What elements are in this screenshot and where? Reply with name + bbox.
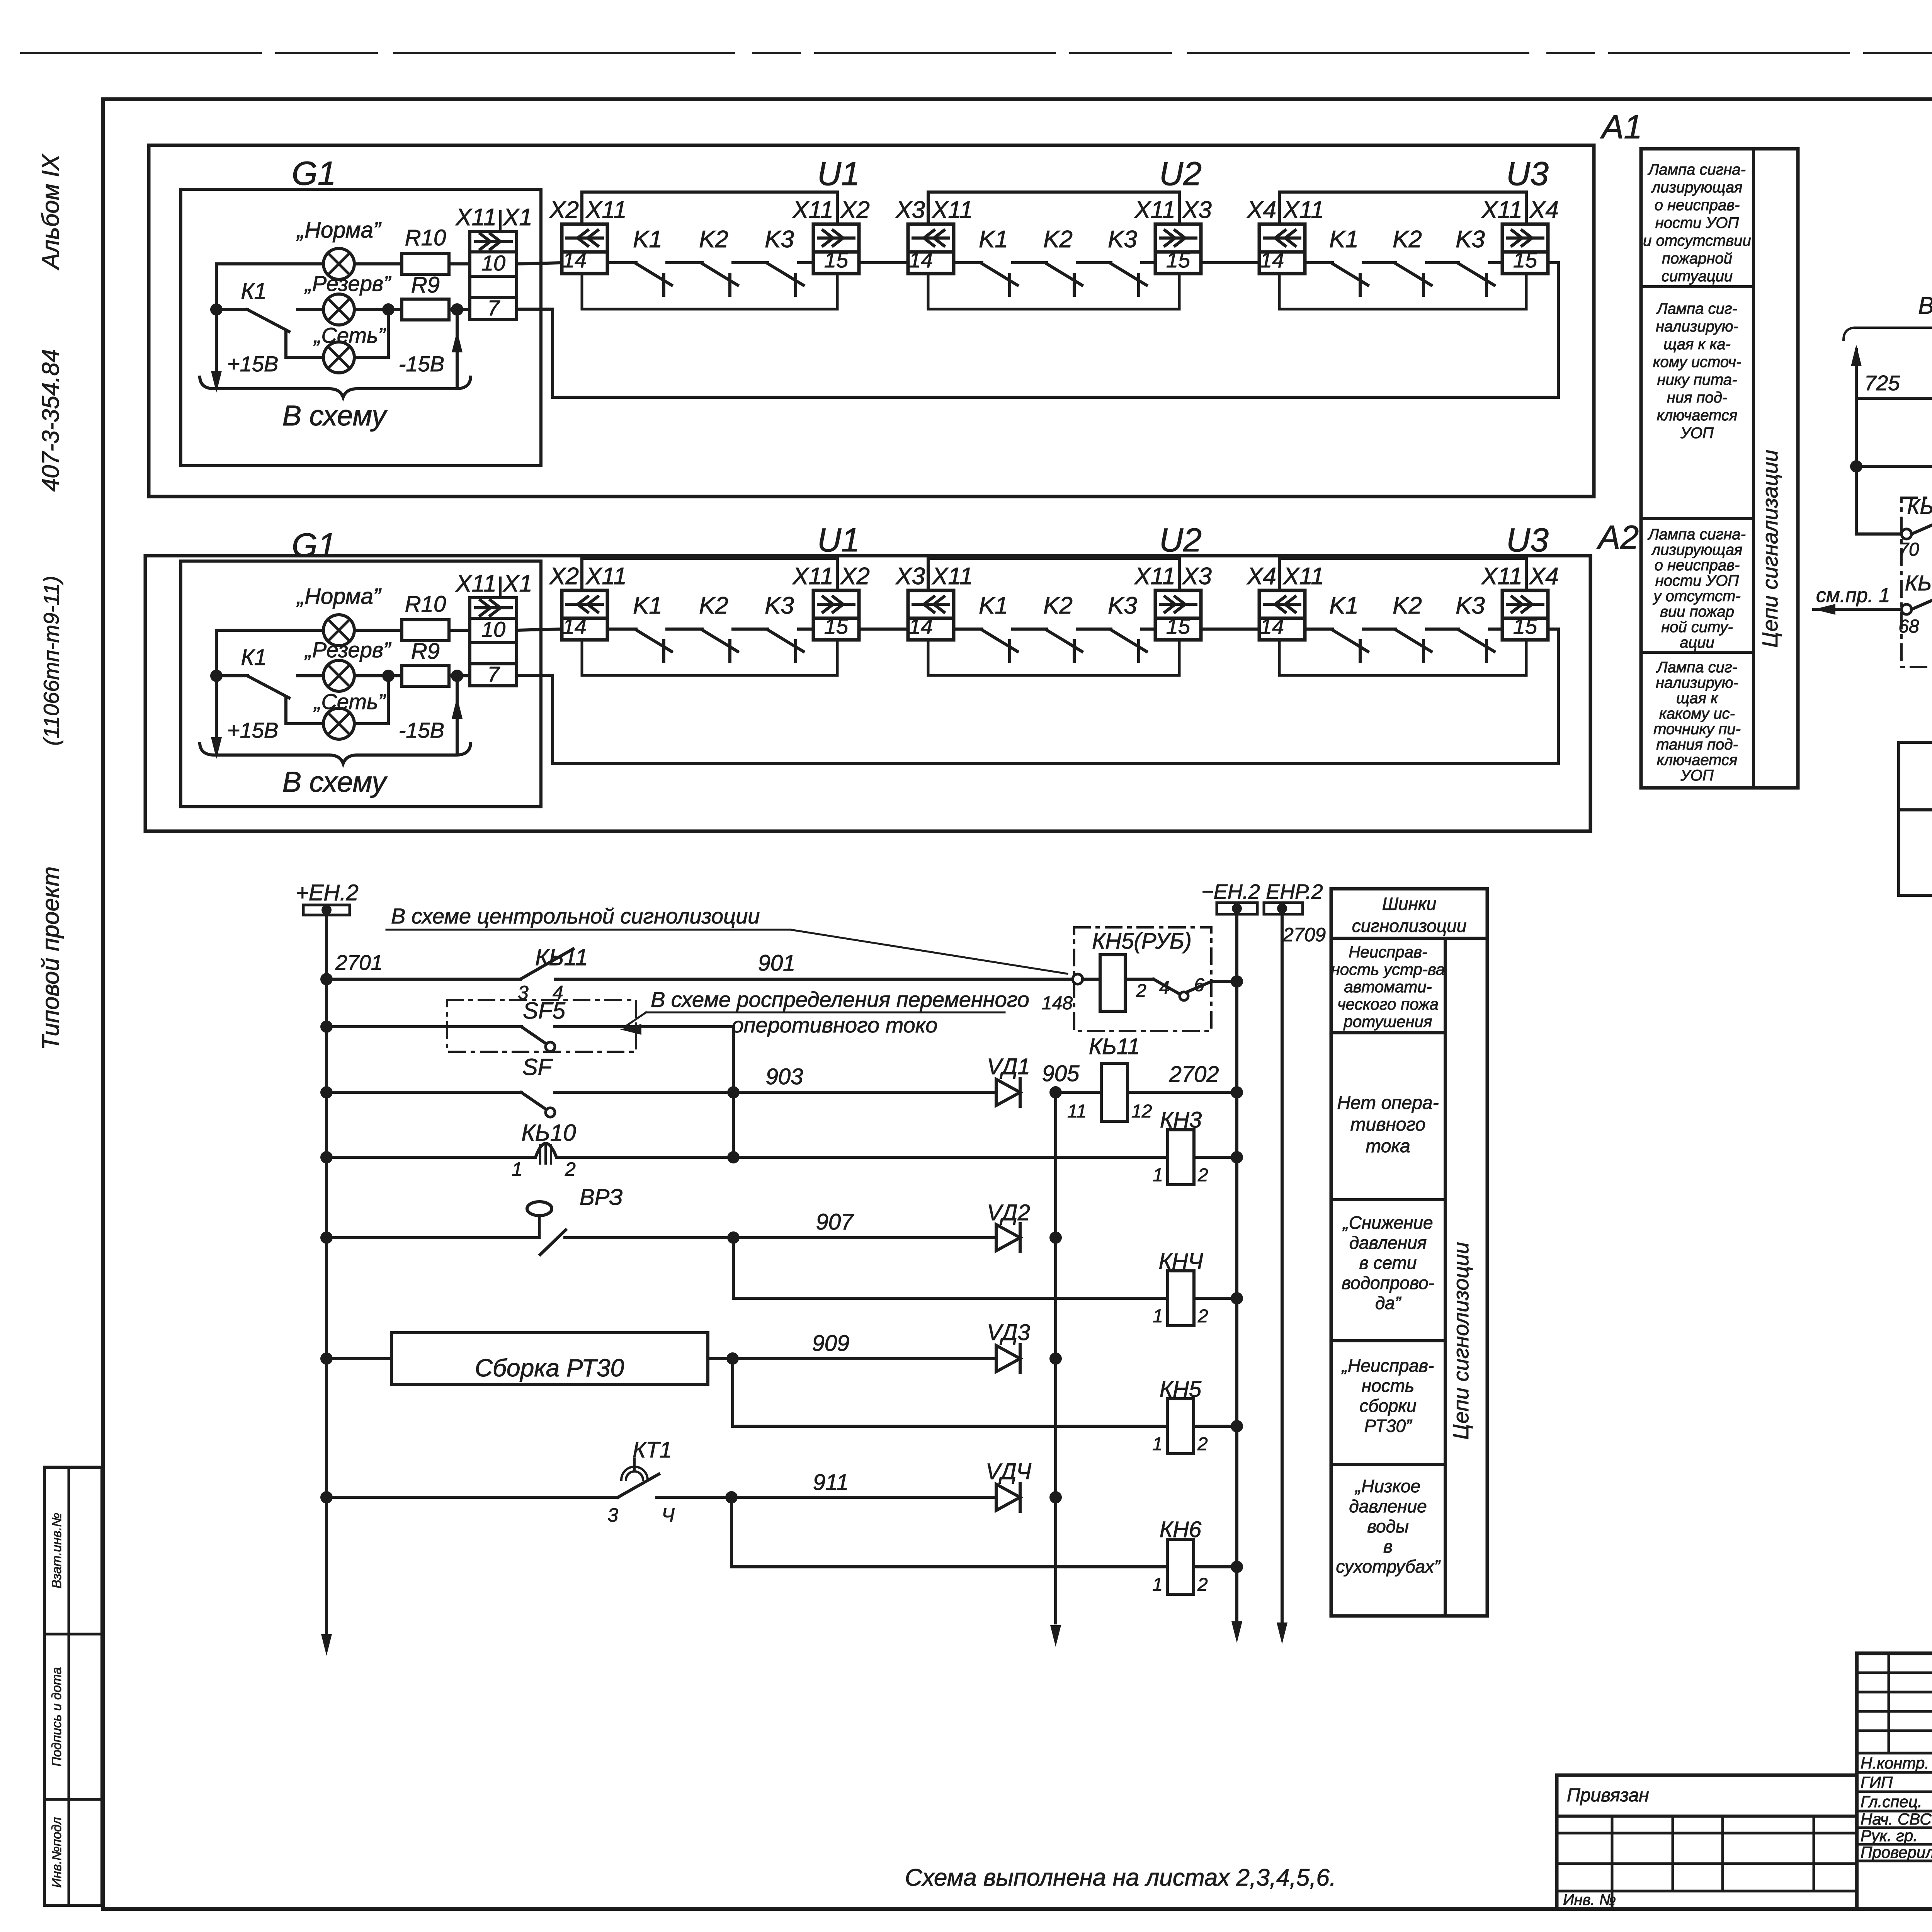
svg-text:K3: K3 [765,226,794,253]
arrow EHP.2 end [1277,1622,1287,1644]
interface unit U2 frame [928,558,1179,675]
svg-text:X4: X4 [1529,197,1559,223]
wire -15B stub [452,310,463,387]
label KH4 [1158,1249,1203,1274]
contact K1 in U2 [979,592,1046,662]
lamp HL Norma [323,248,354,279]
label 2709 [1282,924,1326,946]
svg-text:2: 2 [1136,981,1146,1001]
svg-text:„Норма”: „Норма” [296,584,382,609]
svg-text:K1: K1 [979,226,1008,253]
contact KL8 5-6 [1856,503,1932,560]
svg-text:1: 1 [1152,1575,1163,1595]
lamp HL Set [323,342,354,373]
label Norma [296,218,382,243]
svg-text:2: 2 [1197,1434,1208,1454]
svg-text:X11: X11 [1282,563,1324,590]
svg-text:ния под-: ния под- [1667,389,1727,406]
svg-text:Типовой проект: Типовой проект [37,866,64,1050]
block G1 frame [181,561,541,807]
label U1 [817,522,860,559]
node KH4 at bus [1231,1292,1243,1304]
svg-text:ческого пожа: ческого пожа [1337,995,1439,1013]
label SF [522,1054,553,1080]
svg-text:ной ситу-: ной ситу- [1661,619,1733,636]
svg-text:15: 15 [1166,248,1190,272]
svg-text:K3: K3 [1108,592,1137,619]
svg-text:КЬ8 (РСТ8): КЬ8 (РСТ8) [1905,571,1932,595]
svg-text:у отсутст-: у отсутст- [1652,588,1740,605]
note list numbers [905,1864,1336,1891]
cell lampa 4 [1653,659,1741,784]
svg-text:Ч: Ч [662,1504,675,1526]
wire feeder-SF [327,1025,521,1028]
connector X4/X11 of U3 [1246,563,1324,640]
svg-text:X11: X11 [1134,563,1175,590]
svg-text:лизирующая: лизирующая [1651,541,1743,558]
wire return U3.15 to G1.7 [517,263,1558,397]
svg-text:U3: U3 [1506,522,1549,559]
svg-text:Лампа сиг-: Лампа сиг- [1656,659,1737,676]
svg-text:X11: X11 [585,197,627,223]
svg-text:-15В: -15В [399,352,444,376]
contact K2 in U3 [1393,592,1459,662]
svg-text:R10: R10 [405,225,446,250]
wire R9 row [354,670,470,682]
lamp function table frame [1641,149,1798,788]
node 903 junction [727,1086,740,1099]
label wire 907 [816,1209,855,1235]
label Privyazan [1567,1785,1649,1806]
svg-text:K3: K3 [1108,226,1137,253]
wire Set lamp return [354,303,395,357]
label Podpis i data [49,1667,64,1766]
svg-text:К1: К1 [241,279,267,304]
contact K3 in U3 [1456,226,1502,295]
connector X11/X1 stack [455,204,532,320]
svg-text:„Неисправ-: „Неисправ- [1341,1355,1434,1376]
wire U1.15 to U2 [859,628,908,631]
svg-text:15: 15 [1166,614,1190,638]
contact K2 in U2 [1043,226,1111,295]
svg-text:G1: G1 [292,155,336,192]
signal bus table frame [1331,889,1487,1616]
label VD1 [987,1054,1030,1079]
svg-text:Лампа сиг-: Лампа сиг- [1656,300,1737,317]
label -15B [399,718,444,742]
contact KH7 [1856,371,1932,423]
svg-text:В схему: В схему [282,400,388,432]
svg-text:X1: X1 [502,204,532,231]
label KH3 [1160,1107,1202,1133]
svg-text:и отсутствии: и отсутствии [1643,232,1751,249]
svg-text:X4: X4 [1246,563,1276,590]
svg-text:КНЧ: КНЧ [1158,1249,1203,1274]
table header Shinki [1352,894,1467,936]
margin text Tipovoy proekt [37,866,64,1050]
svg-text:вии пожар: вии пожар [1660,603,1734,620]
contact K1 in U3 [1329,226,1396,295]
svg-text:X11: X11 [455,570,497,597]
staff rows [1861,1754,1932,1861]
junction node [210,303,223,316]
svg-text:ности УОП: ности УОП [1655,214,1740,231]
svg-text:Лампа сигна-: Лампа сигна- [1647,526,1746,543]
sheet top trim line [21,52,1932,54]
connector X2/X11 of U1 [549,563,627,640]
svg-text:воды: воды [1367,1516,1409,1536]
connector X11/X2 of U1 [792,197,870,274]
wire G1 left vertical [215,264,218,389]
interface unit U2 frame [928,192,1179,309]
svg-text:Шинки: Шинки [1382,894,1437,914]
svg-text:K2: K2 [1393,592,1422,619]
label Vzam inv [49,1513,64,1588]
svg-text:2: 2 [565,1158,576,1180]
node KH8 left [1850,460,1862,473]
contact K3 in U2 [1108,592,1155,662]
label А1 [1600,109,1642,146]
svg-text:А2: А2 [1596,519,1639,556]
contact K1 changeover [216,310,323,357]
label VD3 [987,1320,1030,1345]
unit А1 frame [149,145,1594,497]
svg-text:Альбом IX: Альбом IX [37,153,64,270]
svg-text:лизирующая: лизирующая [1651,179,1743,196]
svg-text:1: 1 [1152,1434,1163,1454]
svg-text:X11: X11 [1282,197,1324,223]
svg-text:15: 15 [1513,248,1537,272]
svg-text:68: 68 [1898,616,1919,637]
contact K2 in U2 [1043,592,1111,662]
svg-text:ситуации: ситуации [1662,268,1733,285]
svg-text:X2: X2 [549,563,579,590]
svg-text:КТ1: КТ1 [633,1437,672,1463]
svg-text:X11: X11 [931,197,973,223]
svg-text:X11: X11 [1481,563,1522,590]
svg-text:„Низкое: „Низкое [1355,1476,1420,1496]
node 909 junction [726,1352,739,1365]
label Inv No [1563,1891,1616,1908]
svg-text:пожарной: пожарной [1662,250,1732,267]
connector X11/X4 of U3 [1481,197,1559,274]
node KH5 at bus [1231,1420,1243,1432]
label wire 903 [766,1064,803,1089]
node 911 junction [725,1491,738,1503]
svg-text:2702: 2702 [1168,1062,1219,1087]
svg-text:14: 14 [1260,614,1284,638]
wire +EH.2 feeder [325,915,328,1633]
relay coil KH6 [731,1539,1237,1595]
svg-text:КН5: КН5 [1160,1377,1202,1402]
wire G1 left vertical [215,630,218,755]
svg-text:K1: K1 [1329,592,1359,619]
brace header [1844,319,1932,340]
interface unit U1 frame [582,192,837,309]
svg-text:K1: K1 [979,592,1008,619]
label R9 [411,639,440,664]
svg-text:„Резерв”: „Резерв” [304,271,391,296]
svg-text:U1: U1 [817,522,860,559]
contact KL10 [521,1092,996,1117]
label Set [313,689,386,714]
svg-text:Цепи сигнолизоции: Цепи сигнолизоции [1449,1242,1473,1440]
svg-text:В схеме центрольной сигнолиз: В схеме центрольной сигнолизоции [391,904,760,928]
connector X2/X11 of U1 [549,197,627,274]
margin text Albom IX [37,153,64,270]
svg-text:В схеме роспределения переме: В схеме роспределения переменного [651,987,1029,1012]
cell Neispravnost sborki [1341,1355,1434,1436]
node 2702 [1231,1086,1243,1099]
margin text 407-3-354.84 [37,349,64,492]
svg-text:Инв. №: Инв. № [1563,1891,1616,1908]
label KL8(PCT8) upper [1907,494,1932,519]
lamp HL Norma [323,615,354,646]
brace V schemu [200,377,471,397]
svg-text:K2: K2 [1043,226,1073,253]
cell Net operativnogo [1337,1093,1439,1156]
svg-text:−ЕН.2: −ЕН.2 [1201,880,1260,903]
svg-text:Гл.спец.: Гл.спец. [1861,1793,1922,1811]
wire VR3 down [732,1238,735,1298]
svg-text:SF5: SF5 [523,998,566,1024]
label 725 [1864,371,1900,395]
node KH6 at bus [1231,1561,1243,1573]
assembly RT30 box [327,1333,708,1384]
svg-text:K1: K1 [633,592,662,619]
svg-text:903: 903 [766,1064,803,1089]
label Rezerv [304,638,391,662]
svg-text:+ЕН.2: +ЕН.2 [296,880,359,905]
relay coil KH3 [1153,1130,1237,1185]
arrow -EH.2 end [1231,1621,1242,1643]
svg-text:14: 14 [563,614,587,638]
label SF5 [523,998,566,1024]
node KH3 junction [727,1151,740,1163]
svg-text:+15В: +15В [227,352,278,376]
label А2 [1596,519,1639,556]
label KL10 [521,1120,576,1146]
svg-text:ность: ность [1362,1376,1414,1396]
wire return U3.15 to G1.7 [517,629,1558,764]
wire G1.10 to U1 [517,629,562,630]
svg-text:„Снижение: „Снижение [1342,1213,1433,1233]
svg-text:о неисправ-: о неисправ- [1655,557,1740,574]
svg-text:+15В: +15В [227,718,278,742]
svg-text:КЬ11: КЬ11 [535,944,588,970]
label U3 [1506,155,1549,192]
lamp HL Rezerv [323,660,354,691]
svg-text:K2: K2 [699,226,728,253]
svg-text:2: 2 [1197,1165,1208,1185]
svg-text:щая к: щая к [1676,690,1719,707]
svg-text:3: 3 [607,1504,618,1526]
svg-text:U1: U1 [817,155,860,192]
label VR3 [580,1185,623,1210]
svg-text:ключается: ключается [1657,407,1738,424]
interface unit U1 frame [582,558,837,675]
contact K3 in U1 [765,592,813,662]
svg-text:K3: K3 [1456,226,1485,253]
resistor R9 [402,299,449,320]
connector X11/X3 of U2 [1134,197,1212,274]
label wire 911 [813,1470,849,1495]
svg-text:(11066тп-т9-11): (11066тп-т9-11) [39,576,63,746]
contact K2 in U1 [699,592,768,662]
svg-text:Лампа сигна-: Лампа сигна- [1647,161,1746,178]
svg-text:1: 1 [1153,1306,1163,1327]
wire U1.15 to U2 [859,261,908,264]
junction node [210,670,223,682]
label V schemu [282,766,388,798]
wire 2701-KL11 [327,978,520,981]
breaker SF5 boundary [447,1000,636,1052]
svg-text:нализирую-: нализирую- [1656,318,1738,335]
label KT1 [633,1437,672,1463]
svg-text:R9: R9 [411,639,440,664]
wire 707 out [1899,865,1932,901]
svg-text:905: 905 [1042,1061,1080,1086]
svg-text:КЬ11: КЬ11 [1089,1034,1140,1059]
svg-text:А1: А1 [1600,109,1642,146]
wire sm.pr.1 left [1814,584,1901,615]
diode VD2 [996,1224,1020,1252]
cell Nizkoe davlenie [1336,1476,1441,1577]
resistor R10 [402,253,449,274]
svg-text:В схему передачи индивидуал: В схему передачи индивидуальных сигналов [1918,293,1932,319]
svg-text:2709: 2709 [1282,924,1326,946]
svg-text:автомати-: автомати- [1344,978,1432,996]
label wire 901 [758,951,796,976]
node 903 row [320,1086,333,1099]
label tsepi signalizatsii left [1758,450,1782,648]
label K1 [241,279,267,304]
wire R9 row [354,303,470,316]
contact K3 in U3 [1456,592,1502,662]
valve sensor VR3 [327,1202,996,1255]
wire G1.10 to U1 [517,263,562,264]
svg-text:911: 911 [813,1470,849,1495]
svg-text:K3: K3 [765,592,794,619]
label KL11 coil [1089,1034,1140,1059]
label KL11 [535,944,588,970]
connector X3/X11 of U2 [895,197,973,274]
svg-text:12: 12 [1131,1101,1152,1122]
connector X11/X4 of U3 [1481,563,1559,640]
svg-text:909: 909 [812,1331,850,1356]
svg-text:тивного: тивного [1350,1114,1426,1135]
svg-text:ации: ации [1680,634,1714,651]
svg-text:U3: U3 [1506,155,1549,192]
diode VD3 [996,1345,1020,1372]
svg-text:сборки: сборки [1359,1396,1416,1416]
label G1 [292,155,336,192]
side stamp table [44,1467,102,1905]
attachment table [1557,1775,1857,1909]
svg-text:148: 148 [1042,993,1073,1014]
node VD2 out [1049,1231,1062,1244]
svg-text:X11: X11 [792,197,833,223]
svg-text:КЬ10: КЬ10 [521,1120,576,1146]
svg-text:Сборка РТ30: Сборка РТ30 [475,1354,624,1382]
contact K3 in U1 [765,226,813,295]
svg-text:VД3: VД3 [987,1320,1030,1345]
svg-text:14: 14 [563,248,587,272]
svg-text:14: 14 [909,248,933,272]
svg-text:G1: G1 [292,527,336,564]
svg-text:U2: U2 [1159,155,1202,192]
svg-text:Схема выполнена на листах: Схема выполнена на листах 2,3,4,5,6. [905,1864,1336,1891]
label U2 [1159,522,1202,559]
wire Set lamp return [354,670,395,724]
contact K1 changeover [216,676,323,724]
label Set [313,323,386,347]
label wire 909 [812,1331,850,1356]
resistor R10 [402,620,449,641]
svg-text:сухотрубах”: сухотрубах” [1336,1556,1441,1577]
label U2 [1159,155,1202,192]
svg-text:X4: X4 [1246,197,1276,223]
label U3 [1506,522,1549,559]
svg-text:K2: K2 [1393,226,1422,253]
svg-text:да”: да” [1375,1293,1402,1313]
svg-text:КН3: КН3 [1160,1107,1202,1133]
label G1 [292,527,336,564]
label U1 [817,155,860,192]
label K1 [241,645,267,670]
wire -15B stub [452,676,463,753]
svg-text:Н.контр.: Н.контр. [1861,1754,1929,1772]
contact K1 in U2 [979,226,1046,295]
contact KH8 lower [1899,742,1932,834]
contact K1 in U1 [633,592,702,662]
wire lamp Norma row [216,629,470,632]
wire lower left riser [1897,742,1900,895]
label KH5(RUB) [1092,929,1192,954]
contact 1-2 pressure [327,1143,1168,1180]
svg-text:VД1: VД1 [987,1054,1030,1079]
svg-text:Инв.№подл: Инв.№подл [49,1817,64,1888]
node 2701 [320,973,333,985]
svg-text:X3: X3 [1182,563,1212,590]
label KH6 [1160,1517,1202,1542]
svg-text:15: 15 [1513,614,1537,638]
cell Snizhenie davleniya [1342,1213,1434,1313]
interface unit U3 frame [1279,558,1526,675]
wire 14 to K1 in U2 [954,628,982,631]
contact KL8 boundary [1901,498,1932,667]
connector X11/X3 of U2 [1134,563,1212,640]
svg-text:-15В: -15В [399,718,444,742]
svg-text:7: 7 [487,662,500,686]
relay coil KH5 annunciator [733,1399,1237,1454]
node VD4 out [1049,1491,1062,1503]
svg-text:КЬ8(РСТ8): КЬ8(РСТ8) [1907,494,1932,519]
arrow +15B [211,371,222,393]
svg-text:4: 4 [1159,978,1170,998]
resistor R9 [402,665,449,686]
label -15B [399,352,444,376]
svg-text:Неисправ-: Неисправ- [1349,943,1427,961]
label V schemu [282,400,388,432]
node SF5 row [320,1020,333,1033]
label Rezerv [304,271,391,296]
bus -EH.2 terminal [1201,880,1260,914]
cell lampa 1 [1643,161,1751,285]
svg-text:см.пр. 1: см.пр. 1 [1816,584,1890,607]
bus EHP.2 terminal [1264,880,1323,914]
svg-text:14: 14 [909,614,933,638]
